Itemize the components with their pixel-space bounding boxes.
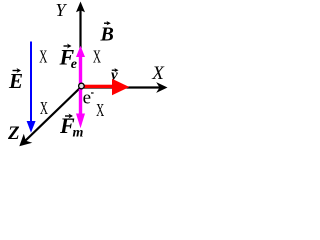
label B with vector arrow xyxy=(100,21,114,45)
label Fm with vector arrow xyxy=(59,113,84,140)
svg-text:e: e xyxy=(83,88,91,109)
svg-text:e: e xyxy=(71,57,77,72)
svg-text:X: X xyxy=(96,102,104,121)
svg-text:X: X xyxy=(93,48,101,67)
electron circle at origin xyxy=(79,83,85,89)
vector v (red, pointing right) xyxy=(85,79,130,95)
vector E (blue, pointing down) xyxy=(27,42,36,133)
Y axis xyxy=(76,2,85,87)
svg-text:Z: Z xyxy=(7,123,20,144)
label v with vector arrow xyxy=(111,67,119,83)
svg-text:E: E xyxy=(8,69,23,93)
svg-text:X: X xyxy=(40,100,48,119)
Z axis xyxy=(19,87,81,147)
svg-text:X: X xyxy=(151,63,165,84)
svg-text:X: X xyxy=(39,48,47,67)
X axis xyxy=(84,82,168,93)
svg-text:m: m xyxy=(73,125,84,140)
vector Fm (magenta, pointing down) xyxy=(76,89,85,128)
svg-text:B: B xyxy=(100,23,114,45)
vector Fe (magenta, pointing up) xyxy=(76,46,85,84)
label Fe with vector arrow xyxy=(59,44,78,72)
electron label e- xyxy=(83,88,94,109)
label E with vector arrow xyxy=(8,68,23,93)
